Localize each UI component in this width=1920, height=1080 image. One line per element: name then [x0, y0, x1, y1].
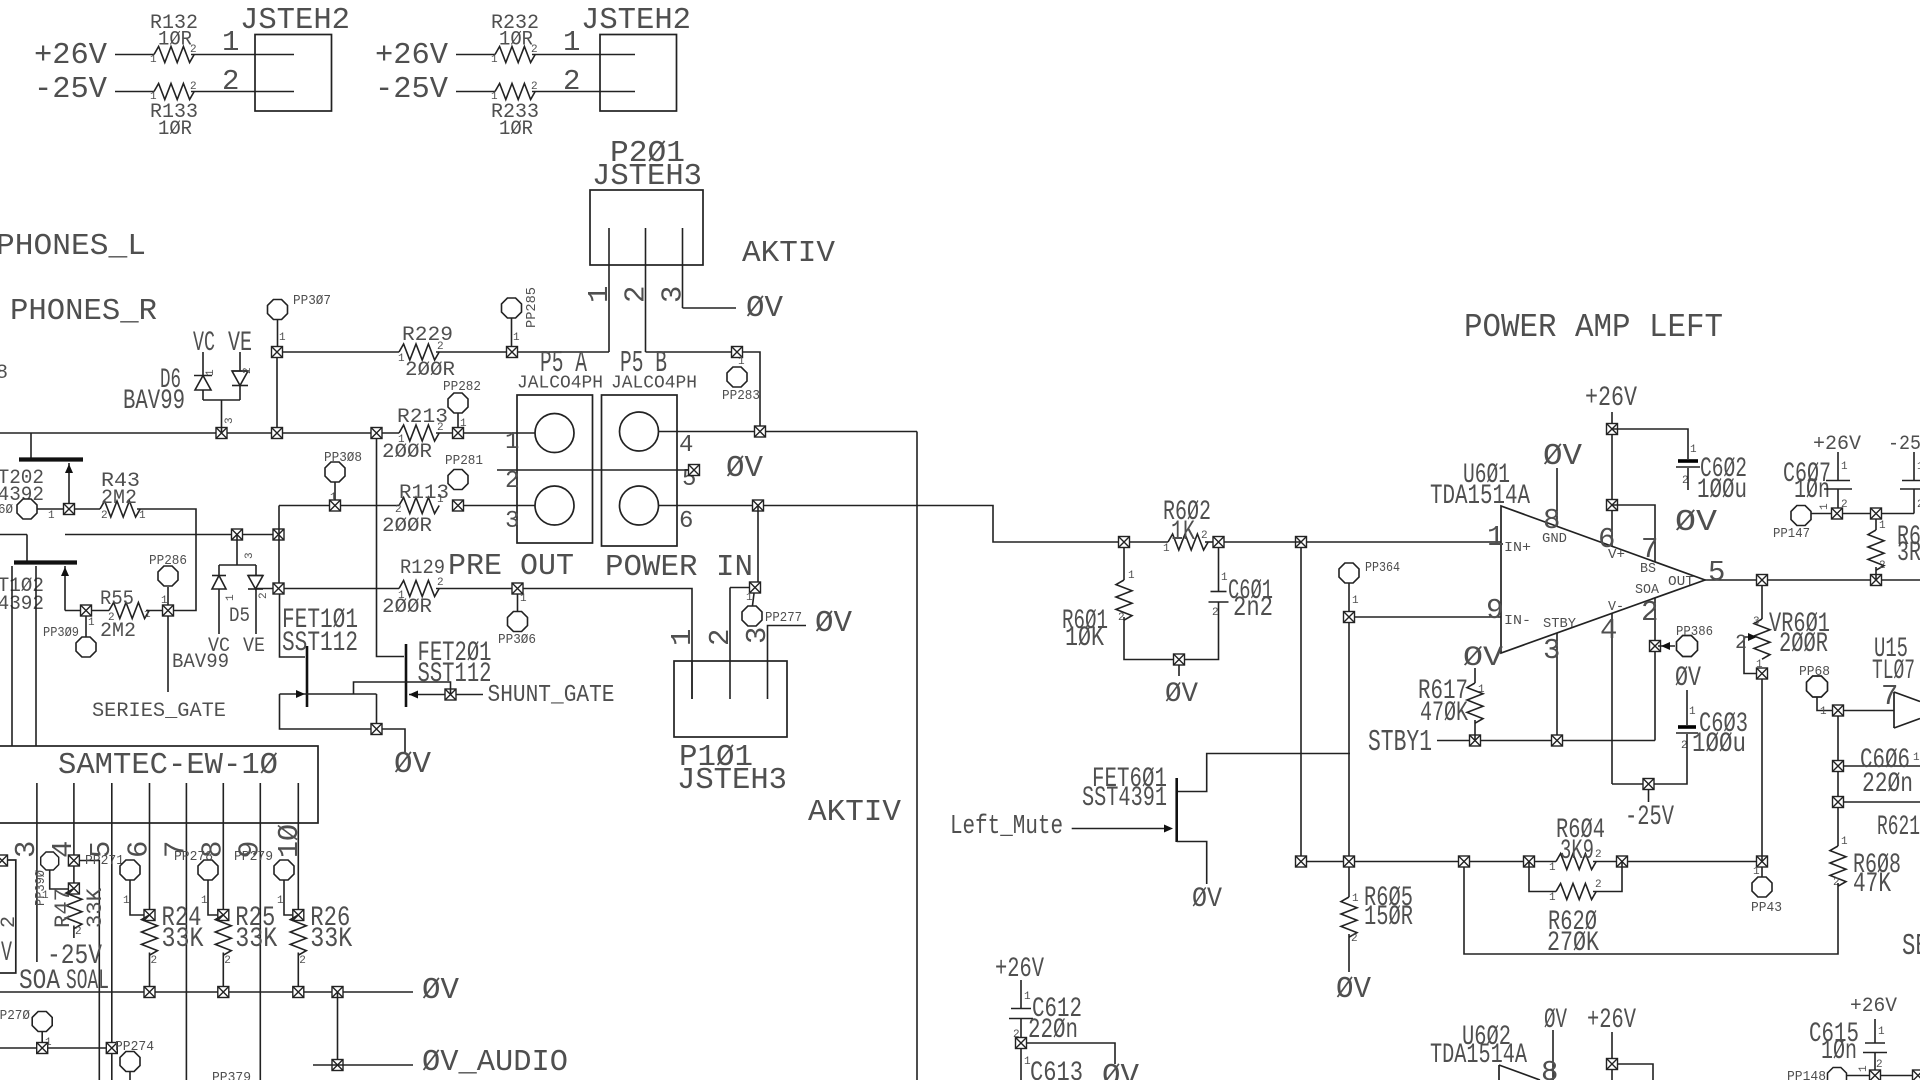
- svg-text:1ØØu: 1ØØu: [1697, 475, 1747, 506]
- capacitor C607 10n: [1824, 481, 1852, 490]
- diode D5 right half: [248, 565, 263, 634]
- svg-text:PP283: PP283: [722, 388, 760, 404]
- wire R25 to 0V bus: [222, 953, 224, 993]
- arrow at PP386: [1661, 642, 1670, 650]
- svg-text:1: 1: [398, 590, 405, 602]
- wire to 0V corner: [1027, 1043, 1115, 1064]
- junction C601 top: [1213, 537, 1224, 548]
- resistor R233 10R: [495, 84, 535, 100]
- wire R608 to feedback row: [1464, 862, 1838, 955]
- junction PP43: [1757, 856, 1768, 867]
- wire -25V stub: [1648, 790, 1650, 802]
- wire C607 to PP147 row: [1837, 489, 1839, 514]
- resistor R132 10R: [154, 47, 194, 63]
- junction 0V stub: [1174, 654, 1185, 665]
- svg-text:ØV: ØV: [1675, 505, 1717, 540]
- svg-text:33K: 33K: [83, 887, 108, 928]
- junction PP309: [81, 605, 92, 616]
- wire bus to FET202: [30, 433, 32, 460]
- svg-text:PP278: PP278: [174, 849, 213, 865]
- junction pin6 net: [753, 500, 764, 511]
- svg-text:3: 3: [10, 841, 43, 858]
- wire D6 pin3 to bus: [221, 400, 223, 433]
- VR601 wiper: [1744, 637, 1762, 674]
- svg-text:SST112: SST112: [282, 628, 358, 659]
- svg-text:9: 9: [1486, 594, 1503, 627]
- junction R25 top: [218, 910, 229, 921]
- op-amp U15 triangle clipped: [1894, 692, 1920, 728]
- wire PP364 lead: [1348, 583, 1350, 611]
- junction VR601 bottom: [1757, 668, 1768, 679]
- svg-text:ØV: ØV: [1102, 1059, 1139, 1080]
- test point PP274: [120, 1052, 140, 1072]
- junction at PP283: [732, 347, 743, 358]
- wire R55 to junction: [146, 610, 168, 612]
- wire 0V to R617: [1474, 668, 1476, 683]
- svg-text:2: 2: [0, 916, 21, 928]
- wire +26V to R132: [115, 54, 154, 56]
- wire R232 to connector pin 1: [532, 54, 635, 56]
- svg-text:PP277: PP277: [765, 610, 802, 626]
- svg-text:1: 1: [1549, 862, 1556, 874]
- junction gate loop: [371, 724, 382, 735]
- svg-text:+26V: +26V: [995, 954, 1044, 985]
- svg-text:3: 3: [657, 286, 690, 303]
- wire R602 to C601 junction: [1205, 541, 1213, 543]
- svg-text:-25V: -25V: [1625, 802, 1674, 833]
- wire feedback from IN+ node: [1300, 548, 1302, 862]
- svg-text:1: 1: [1487, 521, 1504, 554]
- wire C606 row: [1844, 765, 1920, 767]
- U602 V+ lead: [1611, 1032, 1613, 1080]
- resistor R129 200R: [399, 581, 439, 597]
- SAMTEC pin 6 lead: [149, 783, 151, 915]
- svg-text:PP147: PP147: [1773, 526, 1810, 542]
- svg-text:1: 1: [1689, 706, 1696, 718]
- SAMTEC pin 8 lead: [222, 783, 224, 915]
- svg-text:PP3Ø7: PP3Ø7: [293, 293, 331, 309]
- svg-text:3R3: 3R3: [1897, 538, 1920, 569]
- svg-text:2: 2: [75, 926, 82, 938]
- wire P101 pin3 to 0V: [768, 626, 807, 700]
- junction PP277: [750, 582, 761, 593]
- test point above R25: [198, 860, 218, 880]
- FET101 gate loop left: [280, 694, 406, 753]
- svg-text:+26V: +26V: [375, 38, 448, 73]
- svg-text:5: 5: [1708, 556, 1725, 589]
- svg-text:1: 1: [1352, 595, 1359, 607]
- svg-text:2: 2: [108, 612, 115, 624]
- svg-text:2: 2: [1595, 879, 1602, 891]
- svg-text:SST112: SST112: [418, 659, 492, 690]
- wire PP147 to junction: [1811, 513, 1832, 515]
- svg-text:8: 8: [0, 362, 8, 385]
- U602 pin 8 lead: [1552, 1030, 1554, 1080]
- resistor R602 1K: [1168, 534, 1208, 550]
- svg-text:PP43: PP43: [1751, 900, 1782, 916]
- svg-text:OUT: OUT: [1668, 574, 1694, 590]
- svg-text:1: 1: [330, 492, 337, 504]
- wire PP68 lead: [1817, 697, 1832, 711]
- svg-text:2: 2: [704, 629, 737, 646]
- junction PP286 R55: [163, 605, 174, 616]
- svg-text:1: 1: [1549, 892, 1556, 904]
- junction PP386: [1650, 641, 1661, 652]
- svg-text:POWER IN: POWER IN: [605, 550, 753, 585]
- wire IN+ net: [1301, 541, 1501, 543]
- svg-text:AKTIV: AKTIV: [808, 795, 901, 830]
- svg-text:3: 3: [505, 508, 519, 535]
- wire R113 row: [279, 505, 399, 507]
- svg-text:6V: 6V: [0, 938, 12, 969]
- wire R233 to connector pin 2: [532, 91, 635, 93]
- resistor R604 3K9: [1556, 854, 1596, 870]
- svg-text:1: 1: [491, 91, 498, 103]
- test point PP68: [1807, 676, 1828, 697]
- resistor R133 10R: [154, 84, 194, 100]
- svg-text:2: 2: [222, 65, 239, 98]
- svg-text:PHONES_L: PHONES_L: [0, 229, 146, 264]
- SAMTEC pin2 wire up: [35, 566, 37, 746]
- bus wire to P5A pin1: [436, 432, 535, 434]
- svg-text:1ØR: 1ØR: [499, 118, 533, 141]
- junctions bottom right: [1870, 1070, 1920, 1080]
- FET202 gate arrow: [65, 464, 73, 473]
- wire R602 to IN+ node: [1224, 541, 1301, 543]
- resistor R229 200R: [399, 344, 439, 360]
- connector P5B pin6 circle: [620, 486, 659, 525]
- wire VR601 to R604 row: [1761, 679, 1763, 862]
- svg-text:2: 2: [1879, 560, 1886, 572]
- diode D6 right half: [232, 352, 248, 400]
- junctions PP270 row: [37, 1043, 118, 1054]
- svg-text:2M2: 2M2: [100, 620, 136, 643]
- wire R229 row left: [283, 351, 399, 353]
- svg-text:ØV: ØV: [394, 747, 431, 782]
- svg-text:ØV: ØV: [1675, 663, 1701, 694]
- svg-text:+26V: +26V: [1850, 995, 1897, 1018]
- P201 pin 3 lead: [682, 228, 684, 308]
- test point PP148: [1828, 1068, 1847, 1080]
- junction IN- net: [1344, 612, 1355, 623]
- svg-text:1: 1: [1221, 572, 1228, 584]
- svg-text:2: 2: [242, 367, 254, 374]
- diode D6 left half: [194, 352, 212, 400]
- svg-text:3: 3: [244, 552, 256, 559]
- bus junctions: [216, 428, 464, 439]
- test point above R26: [274, 860, 294, 880]
- op-amp U602 triangle clipped: [1499, 1065, 1540, 1080]
- svg-text:BS: BS: [1640, 561, 1656, 577]
- wire R229 to P201 pin1: [436, 351, 609, 353]
- svg-text:1: 1: [1878, 1026, 1885, 1038]
- svg-text:1ØR: 1ØR: [158, 29, 192, 52]
- wire down to FET102: [26, 535, 28, 563]
- wire down to C606 row: [1837, 716, 1839, 766]
- svg-text:3: 3: [741, 627, 774, 644]
- bus wire left section: [0, 432, 399, 434]
- U601 pin 8 GND lead: [1556, 468, 1558, 527]
- junction C612 C613: [1016, 1038, 1027, 1049]
- SAMTEC pin1 wire up: [11, 566, 13, 746]
- junction R26 top: [293, 910, 304, 921]
- wire P201 pin3 to 0V: [683, 307, 737, 309]
- wire R601 top lead: [1123, 548, 1125, 580]
- svg-text:2: 2: [563, 65, 580, 98]
- svg-text:2: 2: [224, 955, 231, 967]
- resistor R113 200R: [399, 498, 439, 514]
- svg-text:1: 1: [279, 332, 286, 344]
- svg-text:2: 2: [258, 592, 270, 599]
- svg-text:T4392: T4392: [0, 593, 44, 616]
- wire D5 pin3 lead: [236, 535, 238, 566]
- svg-text:3: 3: [1753, 616, 1760, 628]
- test point PP147: [1791, 506, 1811, 526]
- wire PP271 net: [79, 861, 99, 1080]
- wire R617 to STBY1: [1474, 720, 1476, 741]
- svg-text:PP271: PP271: [85, 853, 124, 869]
- svg-text:2: 2: [531, 81, 538, 93]
- svg-text:1: 1: [1352, 893, 1359, 905]
- svg-text:1: 1: [1858, 1065, 1870, 1072]
- wire down to R608: [1837, 808, 1839, 846]
- svg-text:1: 1: [1024, 991, 1031, 1003]
- FET601 gate arrow: [1164, 825, 1173, 833]
- R620 left riser: [1529, 862, 1556, 892]
- svg-text:6Ø: 6Ø: [0, 502, 13, 518]
- wire to R43: [75, 508, 100, 510]
- svg-text:D5: D5: [229, 605, 250, 628]
- svg-text:C613: C613: [1030, 1058, 1083, 1080]
- svg-text:1: 1: [398, 434, 405, 446]
- junction R129 left: [273, 583, 284, 594]
- resistor R605 150R: [1341, 897, 1357, 937]
- wire V+ to C602: [1612, 429, 1688, 459]
- svg-text:Left_Mute: Left_Mute: [950, 812, 1063, 842]
- svg-text:+26V: +26V: [1587, 1005, 1636, 1036]
- wire node line y534: [65, 534, 283, 536]
- wire IN- net: [1355, 616, 1501, 618]
- svg-text:2: 2: [101, 510, 108, 522]
- junctions feedback row left: [1296, 856, 1535, 867]
- svg-text:1ØØu: 1ØØu: [1692, 729, 1746, 760]
- U601 pin 4 V- lead: [1611, 613, 1613, 784]
- wire R47 to -25V: [73, 926, 75, 939]
- svg-text:ØV: ØV: [422, 973, 459, 1008]
- svg-text:PP282: PP282: [443, 379, 481, 395]
- svg-text:1: 1: [277, 895, 284, 907]
- wire to P101 pin2: [730, 587, 749, 589]
- test point PP386: [1677, 636, 1698, 657]
- svg-text:1: 1: [150, 54, 157, 66]
- junction pin5: [689, 465, 700, 476]
- wire feedback row: [1301, 861, 1556, 863]
- junctions on 0V bus: [144, 987, 343, 998]
- wire +26V to R232: [456, 54, 495, 56]
- transistor FET201 channel: [405, 644, 408, 707]
- svg-text:1ØK: 1ØK: [1065, 623, 1104, 654]
- svg-text:2: 2: [151, 955, 158, 967]
- svg-text:JALCO4PH: JALCO4PH: [611, 374, 697, 394]
- svg-text:POWER AMP LEFT: POWER AMP LEFT: [1464, 309, 1723, 346]
- U601 pin 3 STBY lead: [1556, 634, 1558, 741]
- svg-text:22Øn: 22Øn: [1862, 769, 1913, 800]
- FET201 gate arrow: [409, 691, 418, 699]
- wire 0V to 0V_AUDIO: [337, 992, 339, 1065]
- svg-text:1ØR: 1ØR: [499, 29, 533, 52]
- junction -25V: [1643, 779, 1654, 790]
- svg-text:JSTEH3: JSTEH3: [677, 763, 787, 798]
- junction PP68 row: [1833, 705, 1844, 716]
- wire FET102 to R55: [65, 610, 86, 612]
- transistor FET102 channel bar: [14, 560, 77, 564]
- junction PP308: [330, 500, 341, 511]
- svg-text:R47: R47: [51, 888, 76, 928]
- svg-text:PP281: PP281: [445, 453, 483, 469]
- junctions on output wire: [1757, 575, 1882, 586]
- svg-text:STBY1: STBY1: [1368, 725, 1432, 760]
- svg-text:1: 1: [88, 617, 95, 629]
- resistor R26 33K: [290, 915, 306, 955]
- svg-text:1: 1: [161, 595, 168, 607]
- svg-text:2: 2: [1876, 1059, 1883, 1071]
- svg-text:1K: 1K: [1171, 517, 1195, 548]
- svg-text:2ØØR: 2ØØR: [382, 515, 432, 538]
- svg-text:2M2: 2M2: [101, 487, 137, 510]
- svg-text:JSTEH2: JSTEH2: [240, 3, 350, 38]
- wire -25V to C608: [1913, 452, 1915, 481]
- svg-text:PP285: PP285: [524, 287, 540, 328]
- svg-text:SERIES_GATE: SERIES_GATE: [92, 700, 226, 723]
- wire PP390 to R47 top: [50, 870, 69, 889]
- P101 pin 1 stub: [691, 661, 693, 699]
- FET201 drain wire: [377, 439, 405, 657]
- svg-text:47K: 47K: [1853, 869, 1891, 900]
- svg-text:2: 2: [1212, 607, 1219, 619]
- test point PP282: [448, 393, 468, 413]
- svg-text:1: 1: [48, 510, 55, 522]
- capacitor C602 100u: [1676, 459, 1700, 467]
- svg-text:1: 1: [205, 369, 217, 376]
- junction R604 right: [1617, 856, 1628, 867]
- wire C608 down: [1913, 489, 1915, 514]
- svg-text:1: 1: [437, 494, 444, 506]
- junction R621 row: [1833, 797, 1844, 808]
- svg-text:BAV99: BAV99: [123, 386, 185, 417]
- junction C606: [1833, 761, 1844, 772]
- svg-text:33K: 33K: [162, 924, 204, 955]
- junctions on y534 line: [232, 529, 285, 540]
- wire C601 top lead: [1218, 548, 1220, 592]
- svg-text:JSTEH3: JSTEH3: [592, 159, 702, 194]
- wire 3R3 to output: [1875, 567, 1877, 580]
- svg-text:PP279: PP279: [234, 849, 273, 865]
- wire pin6 down to P101 pin2 node: [757, 506, 759, 588]
- wire R43 to corner down to R55: [137, 509, 196, 611]
- svg-text:2: 2: [190, 44, 197, 56]
- test point PP364: [1339, 563, 1359, 583]
- wire to R55 zigzag: [92, 610, 109, 612]
- svg-text:PRE OUT: PRE OUT: [448, 549, 574, 584]
- wire U601 output: [1705, 579, 1920, 581]
- svg-text:3: 3: [1543, 634, 1560, 667]
- capacitor C612 220n: [1009, 1009, 1033, 1019]
- svg-text:1: 1: [139, 510, 146, 522]
- P201 pin 1 lead: [608, 228, 610, 352]
- svg-text:2: 2: [531, 44, 538, 56]
- resistor R213 200R: [399, 425, 439, 441]
- svg-text:SER: SER: [1902, 929, 1920, 964]
- wire R129 to P101 pin1: [436, 589, 692, 700]
- FET601 source wire: [1177, 842, 1207, 885]
- connector SAMTEC box: [0, 746, 318, 823]
- svg-text:PP3Ø8: PP3Ø8: [324, 450, 362, 466]
- SAMTEC pin 5 lead: [111, 783, 113, 1080]
- wire test point to R25: [208, 880, 217, 915]
- junction PP271 tap: [68, 855, 79, 866]
- connector P101 box: [674, 661, 787, 737]
- test point PP390: [41, 852, 59, 870]
- FET101 gate loop right: [376, 694, 378, 729]
- VR601 wiper arrow: [1748, 633, 1757, 641]
- junction R43 left: [64, 504, 75, 515]
- connector P5A pin3 circle: [535, 486, 574, 525]
- svg-text:AKTIV: AKTIV: [742, 236, 835, 271]
- svg-text:1: 1: [1819, 503, 1831, 510]
- vertical node wire x279: [278, 506, 280, 589]
- svg-text:1: 1: [666, 629, 699, 646]
- SAMTEC pin 10 lead: [297, 783, 299, 915]
- svg-text:ØV: ØV: [1336, 972, 1371, 1007]
- wire SERIES_GATE: [167, 616, 169, 692]
- test point PP286: [158, 566, 178, 586]
- resistor R24 33K: [142, 915, 158, 955]
- P101 pin2 lead: [729, 588, 731, 700]
- wire FET202 source down: [68, 463, 70, 509]
- test point PP43: [1752, 877, 1772, 897]
- svg-text:4: 4: [1600, 614, 1617, 647]
- connector P5B box: [602, 395, 678, 546]
- svg-text:2n2: 2n2: [1233, 593, 1273, 624]
- wire C603 bottom loop: [1612, 734, 1687, 784]
- long vertical wire x917: [916, 432, 918, 1080]
- connector P5A box: [517, 395, 593, 543]
- svg-text:SAMTEC-EW-1Ø: SAMTEC-EW-1Ø: [58, 748, 278, 783]
- wire bottom right: [1881, 1075, 1912, 1077]
- connector JSTEH2 box 2: [600, 35, 677, 112]
- connector P201 box: [590, 190, 703, 265]
- test point PP307: [268, 300, 288, 320]
- svg-text:PP3Ø6: PP3Ø6: [498, 632, 536, 648]
- wire PP285 lead: [511, 318, 513, 347]
- junction feedback top: [1296, 537, 1307, 548]
- FET101 drain wire: [280, 594, 306, 657]
- svg-text:1: 1: [520, 593, 527, 605]
- capacitor C615 10n: [1863, 1043, 1887, 1053]
- wire R604 right stub: [1593, 861, 1616, 863]
- wire C602 to 0V: [1687, 468, 1689, 490]
- wire PP270 lead: [41, 1032, 43, 1043]
- junction R47 top: [68, 883, 79, 894]
- svg-text:R229: R229: [402, 324, 453, 347]
- svg-text:3K9: 3K9: [1560, 836, 1594, 867]
- FET201 gate wire: [409, 694, 483, 696]
- svg-text:JALCO4PH: JALCO4PH: [517, 374, 603, 394]
- wire PP43 lead: [1761, 867, 1763, 877]
- test point PP308: [325, 462, 345, 482]
- transistor FET101 channel: [306, 646, 309, 707]
- svg-text:1: 1: [513, 332, 520, 344]
